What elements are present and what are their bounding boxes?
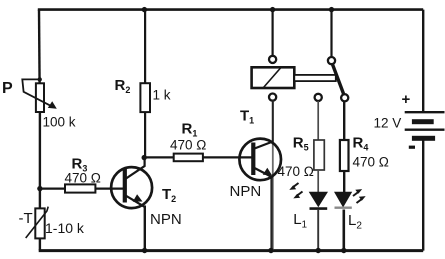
transistor T1 circle [239, 139, 281, 181]
battery short thick bar 2 [412, 136, 435, 141]
svg-text:470 Ω: 470 Ω [278, 164, 314, 179]
wire switch middle contact down to R5 [317, 101, 319, 140]
transistor T2 emitter lead with arrow [126, 196, 145, 208]
relay coil diagonal [264, 68, 281, 88]
wire bottom rail [39, 249, 424, 252]
wire relay coil bottom to T1 collector (gray through transistor) [272, 101, 274, 251]
node dot at R2/R1/T2 collector [142, 155, 147, 160]
wire relay coil top [272, 10, 274, 56]
wire T2 emitter to bottom rail [144, 206, 146, 251]
svg-text:470 Ω: 470 Ω [170, 138, 206, 153]
wire L1 to bottom rail [317, 210, 319, 251]
svg-text:-T: -T [19, 210, 33, 227]
node dot T1 emitter at bottom rail [268, 248, 273, 253]
wire switch right contact down to R4 [343, 101, 345, 140]
transistor T2 base bar [123, 169, 127, 203]
node dot at potentiometer top terminal [38, 77, 42, 81]
node dot L2 at bottom rail [341, 248, 346, 253]
relay armature bar [294, 75, 336, 81]
LED L1 cathode bar [310, 207, 328, 210]
svg-text:1 k: 1 k [153, 88, 171, 103]
node dot top rail at relay coil branch [270, 7, 275, 12]
potentiometer P wiper arm [22, 79, 50, 105]
node dot top rail at switch branch [329, 7, 334, 12]
switch lever [332, 64, 344, 95]
node dot L1 at bottom rail [316, 248, 321, 253]
svg-text:1-10 k: 1-10 k [45, 220, 85, 236]
wire top rail [38, 8, 423, 11]
transistor T2 circle [111, 167, 152, 208]
battery plate long bottom [405, 128, 445, 130]
svg-text:P: P [2, 80, 13, 97]
LED L2 light arrows [353, 192, 359, 197]
node dot T2 emitter at bottom rail [142, 248, 147, 253]
thermistor diagonal stroke [26, 207, 49, 238]
wire right vertical upper (top rail to battery +) [422, 10, 424, 112]
LED L1 triangle [309, 192, 328, 208]
wire L2 to bottom rail [342, 210, 345, 251]
battery plate long top [405, 111, 445, 113]
transistor T1 emitter lead with arrow [255, 168, 273, 178]
relay coil top terminal circle [269, 56, 276, 63]
LED L2 cathode bar [335, 206, 352, 208]
svg-text:NPN: NPN [150, 211, 182, 228]
wire switch pivot to top rail [330, 10, 332, 57]
potentiometer P body [36, 83, 44, 112]
resistor R3 body [65, 184, 95, 192]
svg-text:+: + [402, 91, 411, 108]
switch middle contact circle [315, 94, 322, 101]
relay coil [252, 67, 295, 88]
node dot top rail at R2 branch [142, 7, 147, 12]
svg-text:470 Ω: 470 Ω [353, 155, 389, 170]
svg-text:NPN: NPN [230, 183, 262, 200]
switch right contact circle [341, 94, 348, 101]
resistor R5 body [314, 140, 324, 170]
wire R3 left [40, 188, 65, 190]
battery short thick bar 1 [412, 119, 434, 124]
LED L1 light arrows [293, 183, 299, 188]
transistor T1 base bar [251, 143, 255, 176]
label - [409, 146, 415, 149]
transistor T1 collector lead [255, 142, 273, 149]
svg-text:100 k: 100 k [43, 115, 76, 130]
node dot at R3 / thermistor junction [37, 186, 42, 191]
thermistor -T body [35, 208, 44, 238]
wire left vertical middle (potentiometer to R3 node and thermistor) [39, 112, 41, 209]
svg-text:12 V: 12 V [374, 116, 402, 131]
wire R3 right (to T2 base) [95, 188, 124, 190]
wire R1 left [144, 156, 174, 158]
LED L2 triangle [334, 192, 352, 208]
wire R5 to LED L1 [317, 170, 319, 192]
resistor R4 body [340, 140, 349, 171]
wire R4 to LED L2 [343, 171, 345, 192]
resistor R2 body [140, 83, 150, 112]
svg-text:470 Ω: 470 Ω [65, 171, 101, 186]
wire R1 right (to T1 base) [203, 156, 253, 158]
switch pivot circle [328, 57, 335, 64]
wire left vertical upper (top rail to potentiometer) [38, 10, 41, 84]
wire left vertical lower (thermistor to bottom rail) [39, 238, 41, 250]
wire T1 emitter to bottom rail [270, 178, 272, 251]
transistor T2 collector lead [126, 159, 145, 179]
resistor R1 body [174, 154, 203, 162]
wire R2 bottom to collector node [144, 112, 146, 158]
wire R2 top [144, 10, 146, 84]
wire right vertical lower (battery - to bottom rail) [422, 141, 424, 251]
relay coil bottom terminal circle [269, 94, 276, 101]
